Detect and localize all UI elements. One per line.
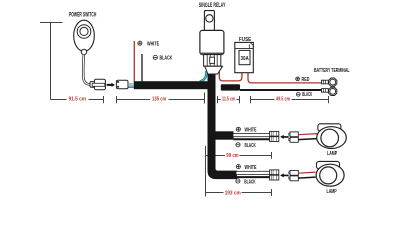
svg-text:BATTERY TERMINAL: BATTERY TERMINAL (314, 68, 350, 74)
svg-text:91.5 cm: 91.5 cm (69, 96, 87, 102)
svg-text:FUSE: FUSE (239, 37, 251, 43)
svg-text:135 cm: 135 cm (152, 96, 167, 102)
svg-text:RED: RED (302, 77, 310, 83)
svg-text:99 cm: 99 cm (226, 153, 239, 159)
svg-text:BLACK: BLACK (302, 92, 312, 98)
svg-text:WHITE: WHITE (147, 41, 159, 47)
svg-text:BLACK: BLACK (244, 179, 255, 185)
svg-text:BLACK: BLACK (160, 56, 173, 62)
svg-text:193 cm: 193 cm (225, 190, 241, 196)
svg-text:WHITE: WHITE (245, 127, 257, 133)
svg-text:POWER SWITCH: POWER SWITCH (69, 12, 96, 19)
svg-text:LAMP: LAMP (327, 151, 337, 157)
svg-text:49.5 cm: 49.5 cm (276, 96, 290, 102)
svg-text:LAMP: LAMP (327, 189, 337, 195)
svg-text:11.5 cm: 11.5 cm (222, 96, 235, 102)
svg-text:BLACK: BLACK (245, 143, 256, 149)
svg-text:SINGLE RELAY: SINGLE RELAY (199, 2, 226, 9)
svg-text:WHITE: WHITE (245, 165, 257, 171)
svg-text:30A: 30A (241, 56, 249, 62)
